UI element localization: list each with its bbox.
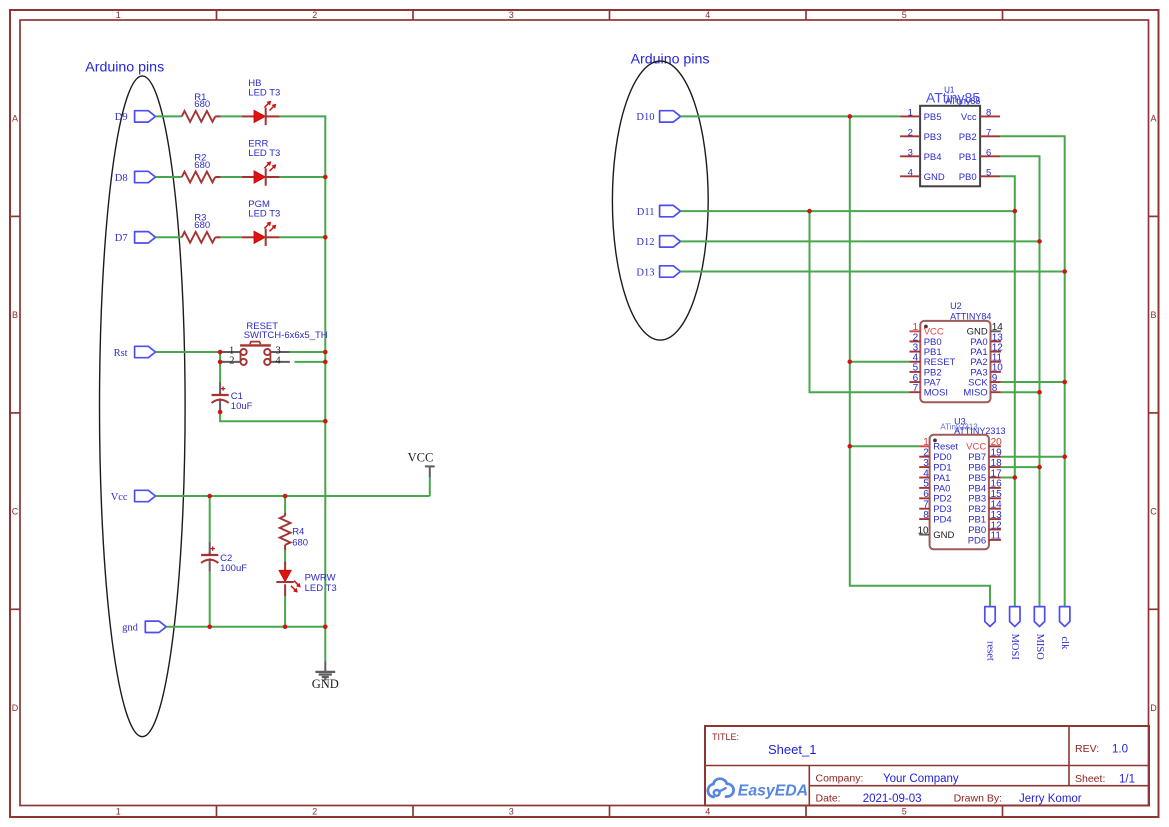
svg-text:6: 6 bbox=[986, 148, 991, 159]
svg-text:15: 15 bbox=[991, 489, 1003, 500]
junction PB7/clk bbox=[1062, 454, 1067, 459]
wire Vcc to R4 bbox=[284, 496, 286, 513]
resistor R1 680 bbox=[182, 92, 221, 122]
junction MISO/U2 bbox=[1037, 390, 1042, 395]
junction SCK/clk bbox=[1062, 380, 1067, 385]
svg-text:Arduino pins: Arduino pins bbox=[631, 51, 710, 67]
svg-text:PB0: PB0 bbox=[968, 525, 986, 536]
svg-text:PB4: PB4 bbox=[968, 483, 986, 494]
LED ERR LED T3 bbox=[242, 139, 281, 186]
junction sw4 bus bbox=[323, 360, 328, 365]
svg-text:LED T3: LED T3 bbox=[248, 208, 280, 219]
svg-text:PD2: PD2 bbox=[933, 494, 951, 505]
svg-text:PB0: PB0 bbox=[959, 172, 977, 183]
svg-text:8: 8 bbox=[923, 510, 929, 521]
svg-text:19: 19 bbox=[991, 448, 1003, 459]
junction C1 bottom bbox=[218, 410, 223, 415]
wire switch pin 3 to bus bbox=[290, 351, 326, 353]
svg-text:PB2: PB2 bbox=[968, 504, 986, 515]
svg-text:B: B bbox=[1150, 310, 1156, 320]
wire reset bus to U3 Reset bbox=[850, 445, 920, 447]
svg-text:PD0: PD0 bbox=[933, 452, 951, 463]
svg-text:1.0: 1.0 bbox=[1112, 744, 1128, 756]
svg-text:4: 4 bbox=[908, 168, 913, 179]
net port Rst bbox=[114, 346, 156, 359]
wire U1 PB1 to MISO bus bbox=[1000, 156, 1040, 606]
svg-text:1: 1 bbox=[908, 108, 913, 119]
svg-text:D: D bbox=[12, 703, 19, 713]
svg-text:ATTINY84: ATTINY84 bbox=[950, 311, 991, 321]
wire U3 PB6 to MISO bus bbox=[1001, 466, 1040, 468]
svg-text:11: 11 bbox=[991, 531, 1002, 542]
junction sw3 bus bbox=[323, 350, 328, 355]
EasyEDA logo bbox=[708, 779, 808, 800]
svg-text:4: 4 bbox=[705, 10, 710, 20]
wire U3 PB5 to MOSI bus bbox=[1001, 477, 1015, 479]
wire reset bus to U2 RESET bbox=[850, 361, 910, 363]
svg-text:PB1: PB1 bbox=[959, 152, 977, 163]
svg-text:REV:: REV: bbox=[1075, 743, 1099, 755]
resistor R3 680 bbox=[182, 213, 221, 243]
junction gnd/C2 bbox=[207, 625, 212, 630]
net port D11 bbox=[637, 205, 681, 218]
svg-text:TITLE:: TITLE: bbox=[712, 732, 739, 742]
capacitor C2 100uF bbox=[201, 542, 247, 574]
wire U2 MISO to MISO bus bbox=[1001, 391, 1040, 393]
svg-text:Sheet:: Sheet: bbox=[1075, 773, 1105, 785]
svg-text:10: 10 bbox=[917, 526, 929, 537]
svg-text:D12: D12 bbox=[636, 237, 654, 248]
svg-text:2: 2 bbox=[923, 448, 929, 459]
svg-text:1/1: 1/1 bbox=[1119, 773, 1135, 785]
svg-text:Rst: Rst bbox=[114, 348, 128, 359]
svg-text:GND: GND bbox=[924, 172, 945, 183]
wire U1 PB2 to clk bus bbox=[1000, 136, 1065, 606]
svg-text:PB2: PB2 bbox=[959, 132, 977, 143]
wire LED HB to bus bbox=[280, 115, 326, 117]
svg-text:R4: R4 bbox=[292, 527, 304, 538]
wire Vcc to C2 bbox=[209, 496, 211, 542]
svg-text:VCC: VCC bbox=[966, 442, 986, 453]
svg-text:680: 680 bbox=[194, 160, 210, 171]
svg-text:2021-09-03: 2021-09-03 bbox=[863, 793, 922, 805]
wire D12 to MISO bus bbox=[681, 240, 1040, 242]
net port D10 bbox=[636, 111, 680, 124]
svg-text:17: 17 bbox=[991, 468, 1003, 479]
svg-text:6: 6 bbox=[923, 489, 929, 500]
wire R4 to PWRW LED bbox=[284, 550, 286, 561]
svg-text:12: 12 bbox=[991, 520, 1003, 531]
wire Vcc rail bbox=[156, 495, 430, 497]
junction Vcc/R4 bbox=[283, 494, 288, 499]
wire left vertical bus bbox=[324, 115, 326, 661]
svg-text:clk: clk bbox=[1059, 637, 1070, 651]
IC U2 ATTINY84 bbox=[910, 301, 1004, 402]
svg-text:LED T3: LED T3 bbox=[248, 88, 280, 99]
svg-text:GND: GND bbox=[933, 530, 954, 541]
LED PGM LED T3 bbox=[242, 199, 281, 246]
svg-text:MOSI: MOSI bbox=[1009, 634, 1020, 661]
svg-text:5: 5 bbox=[923, 479, 929, 490]
capacitor C1 10uF bbox=[212, 382, 253, 412]
right Arduino pins group ellipse bbox=[612, 61, 708, 340]
svg-text:3: 3 bbox=[509, 807, 514, 817]
svg-text:2: 2 bbox=[312, 807, 317, 817]
resistor R2 680 bbox=[182, 152, 221, 182]
svg-text:PB3: PB3 bbox=[924, 132, 942, 143]
wire D11 to U2 MOSI bbox=[810, 211, 910, 392]
junction D10/reset bus bbox=[848, 114, 853, 119]
svg-text:3: 3 bbox=[509, 10, 514, 20]
svg-text:8: 8 bbox=[992, 383, 998, 394]
svg-text:PD4: PD4 bbox=[933, 515, 951, 526]
wire D10 to U1 pin1 bbox=[681, 115, 901, 117]
wire LED PGM to bus bbox=[280, 236, 326, 238]
svg-text:D7: D7 bbox=[115, 233, 128, 244]
svg-text:7: 7 bbox=[986, 128, 991, 139]
net port Vcc bbox=[111, 490, 156, 503]
svg-text:MISO: MISO bbox=[1034, 634, 1045, 661]
svg-text:VCC: VCC bbox=[408, 451, 434, 465]
svg-text:PD3: PD3 bbox=[933, 504, 951, 515]
VCC power symbol bbox=[408, 451, 435, 478]
svg-text:D8: D8 bbox=[115, 173, 128, 184]
svg-text:18: 18 bbox=[991, 458, 1003, 469]
svg-text:Company:: Company: bbox=[816, 773, 864, 785]
svg-text:7: 7 bbox=[913, 383, 919, 394]
svg-text:A: A bbox=[12, 113, 18, 123]
GND ground symbol bbox=[312, 661, 339, 691]
wire switch pin 2 stub left bbox=[220, 361, 224, 363]
junction PB6/MISO bbox=[1037, 465, 1042, 470]
svg-text:1: 1 bbox=[116, 807, 121, 817]
svg-text:4: 4 bbox=[923, 468, 929, 479]
junction sw2 bbox=[218, 360, 223, 365]
wire LED ERR to bus bbox=[280, 176, 326, 178]
junction D11 flag wire bbox=[807, 209, 812, 214]
svg-text:Vcc: Vcc bbox=[111, 492, 128, 503]
svg-text:MOSI: MOSI bbox=[924, 388, 948, 399]
junction sw1 bbox=[218, 350, 223, 355]
net port MISO bbox=[1034, 607, 1045, 661]
wire U1 PB0 to MOSI bus bbox=[1000, 176, 1015, 606]
svg-text:GND: GND bbox=[312, 677, 339, 691]
svg-text:D10: D10 bbox=[636, 112, 654, 123]
svg-text:reset: reset bbox=[984, 641, 995, 661]
svg-text:Your Company: Your Company bbox=[883, 773, 959, 785]
svg-text:D9: D9 bbox=[115, 112, 128, 123]
svg-text:14: 14 bbox=[991, 500, 1003, 511]
svg-text:5: 5 bbox=[902, 807, 907, 817]
svg-text:SWITCH-6x6x5_TH: SWITCH-6x6x5_TH bbox=[244, 330, 328, 341]
svg-text:2: 2 bbox=[908, 128, 913, 139]
svg-text:PB1: PB1 bbox=[968, 515, 986, 526]
junction C1 bus bbox=[323, 419, 328, 424]
svg-text:8: 8 bbox=[986, 108, 991, 119]
svg-text:680: 680 bbox=[194, 99, 210, 110]
svg-text:D11: D11 bbox=[637, 207, 655, 218]
left Arduino pins group ellipse bbox=[100, 76, 186, 737]
svg-text:680: 680 bbox=[292, 538, 308, 549]
junction D8 bus bbox=[323, 175, 328, 180]
LED HB LED T3 bbox=[242, 78, 281, 125]
svg-text:D: D bbox=[1150, 703, 1157, 713]
junction gnd/bus bbox=[323, 625, 328, 630]
svg-text:100uF: 100uF bbox=[220, 563, 247, 574]
svg-text:4: 4 bbox=[275, 356, 281, 367]
wire C1 to bus bbox=[220, 411, 325, 422]
svg-text:Drawn By:: Drawn By: bbox=[954, 793, 1002, 805]
net port MOSI bbox=[1009, 607, 1020, 661]
svg-text:1: 1 bbox=[116, 10, 121, 20]
svg-text:PB5: PB5 bbox=[968, 473, 986, 484]
svg-text:10uF: 10uF bbox=[231, 401, 253, 412]
junction PB5/MOSI bbox=[1013, 475, 1018, 480]
wire R2 to LED bbox=[221, 176, 242, 178]
svg-text:3: 3 bbox=[923, 458, 929, 469]
svg-text:EasyEDA: EasyEDA bbox=[738, 782, 808, 799]
svg-text:3: 3 bbox=[908, 148, 913, 159]
svg-text:gnd: gnd bbox=[122, 623, 139, 634]
svg-text:D13: D13 bbox=[636, 267, 654, 278]
svg-text:Arduino pins: Arduino pins bbox=[85, 59, 164, 75]
svg-text:5: 5 bbox=[902, 10, 907, 20]
wire D11 to MOSI bus bbox=[681, 210, 1015, 212]
svg-text:PB5: PB5 bbox=[924, 112, 942, 123]
net port D8 bbox=[115, 171, 156, 184]
svg-text:Reset: Reset bbox=[933, 442, 958, 453]
wire U3 PB7 to clk bus bbox=[1001, 456, 1065, 458]
svg-text:Date:: Date: bbox=[816, 793, 841, 805]
svg-text:A: A bbox=[1150, 113, 1156, 123]
wire D13 to clk bus bbox=[681, 271, 1065, 273]
net port D13 bbox=[636, 266, 680, 279]
wire switch pin 4 to bus bbox=[295, 361, 326, 363]
svg-text:2: 2 bbox=[229, 356, 234, 367]
svg-text:680: 680 bbox=[194, 220, 210, 231]
svg-text:PB4: PB4 bbox=[924, 152, 942, 163]
svg-text:PA1: PA1 bbox=[933, 473, 950, 484]
wire D7 to R3 bbox=[156, 236, 182, 238]
svg-text:ATtiny85: ATtiny85 bbox=[946, 96, 981, 106]
IC U3 ATTINY2313 bbox=[917, 416, 1005, 549]
svg-text:Jerry Komor: Jerry Komor bbox=[1019, 793, 1082, 805]
net port gnd bbox=[122, 621, 166, 634]
net port clk bbox=[1059, 607, 1070, 650]
svg-text:B: B bbox=[12, 310, 18, 320]
junction D12/MISO bbox=[1037, 239, 1042, 244]
svg-text:1: 1 bbox=[923, 437, 929, 448]
svg-text:7: 7 bbox=[923, 500, 929, 511]
svg-text:PB7: PB7 bbox=[968, 452, 986, 463]
switch RESET SWITCH-6x6x5_TH bbox=[222, 321, 328, 366]
svg-text:U2: U2 bbox=[950, 301, 962, 311]
junction D13/clk bbox=[1062, 269, 1067, 274]
svg-text:LED T3: LED T3 bbox=[248, 148, 280, 159]
junction gnd/LED bbox=[283, 625, 288, 630]
svg-text:PB3: PB3 bbox=[968, 494, 986, 505]
junction D11/MOSI bbox=[1013, 209, 1018, 214]
junction reset/U2 bbox=[848, 359, 853, 364]
wire C2 to gnd rail bbox=[209, 572, 211, 627]
IC U1 ATtiny85 bbox=[900, 86, 1000, 187]
wire VCC symbol to rail bbox=[429, 477, 431, 496]
wire Rst node down to C1 bbox=[219, 352, 221, 382]
wire Rst to switch pin 1 bbox=[156, 351, 225, 353]
resistor R4 680 bbox=[280, 513, 308, 550]
wire R1 to LED bbox=[221, 115, 242, 117]
net port reset bbox=[984, 607, 995, 661]
svg-text:Vcc: Vcc bbox=[961, 112, 977, 123]
svg-text:13: 13 bbox=[991, 510, 1003, 521]
LED PWRW LED T3 bbox=[276, 562, 336, 597]
net port D7 bbox=[115, 232, 156, 245]
net port D12 bbox=[636, 236, 680, 249]
svg-text:PD1: PD1 bbox=[933, 463, 951, 474]
wire D9 to R1 bbox=[156, 115, 182, 117]
svg-text:20: 20 bbox=[991, 437, 1003, 448]
title block bbox=[705, 726, 1149, 806]
junction D7 bus bbox=[323, 235, 328, 240]
junction reset/U3 bbox=[848, 444, 853, 449]
svg-text:16: 16 bbox=[991, 479, 1003, 490]
wire U2 SCK to clk bus bbox=[1001, 381, 1065, 383]
svg-text:MISO: MISO bbox=[963, 388, 987, 399]
svg-text:PD6: PD6 bbox=[968, 535, 986, 546]
net port D9 bbox=[115, 111, 156, 124]
junction Vcc/C2 bbox=[207, 494, 212, 499]
svg-text:5: 5 bbox=[986, 168, 991, 179]
wire D8 to R2 bbox=[156, 176, 182, 178]
svg-text:PB6: PB6 bbox=[968, 463, 986, 474]
svg-text:4: 4 bbox=[705, 807, 710, 817]
wire gnd rail bbox=[166, 626, 325, 628]
wire PWRW to gnd rail bbox=[284, 596, 286, 627]
svg-text:2: 2 bbox=[312, 10, 317, 20]
wire reset bus bbox=[850, 116, 990, 606]
wire R3 to LED bbox=[221, 236, 242, 238]
svg-text:LED T3: LED T3 bbox=[305, 583, 337, 594]
svg-text:C: C bbox=[12, 506, 19, 516]
svg-text:C: C bbox=[1150, 506, 1157, 516]
svg-text:Sheet_1: Sheet_1 bbox=[768, 742, 816, 757]
svg-text:PA0: PA0 bbox=[933, 483, 950, 494]
